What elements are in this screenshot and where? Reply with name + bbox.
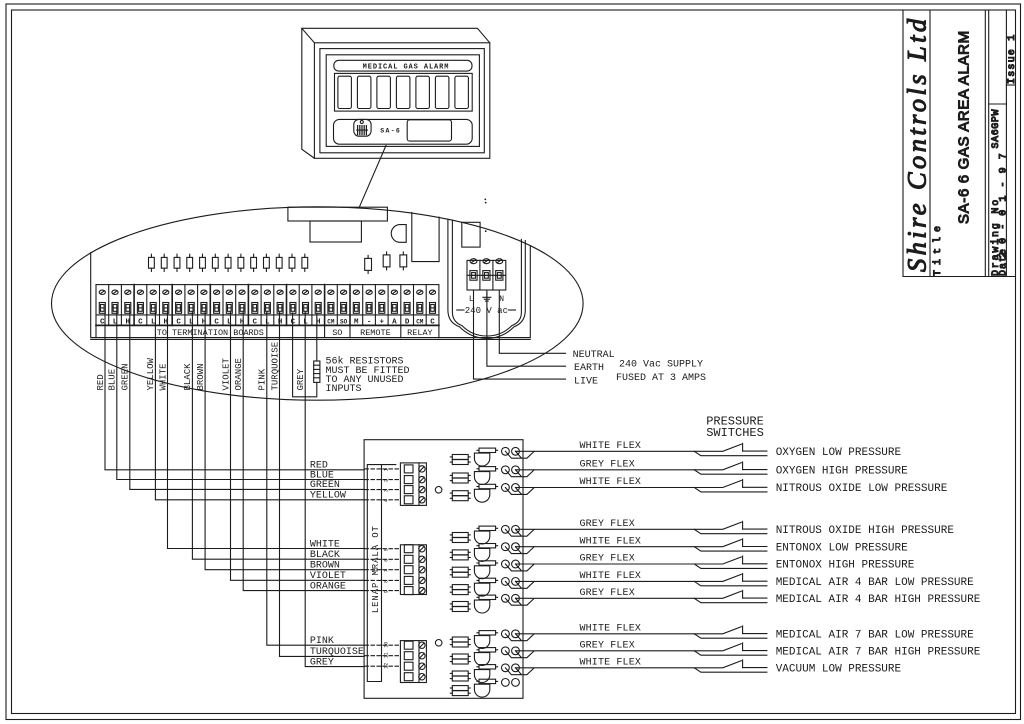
svg-text:8: 8 (384, 580, 390, 583)
connector J1 (400, 463, 426, 506)
svg-text:M: M (371, 570, 381, 575)
svg-text:3: 3 (384, 489, 390, 492)
mains terminal block (467, 259, 506, 290)
resistor pair row 9 (450, 637, 470, 647)
reset button (407, 120, 451, 141)
indicator row 6 (474, 561, 497, 579)
svg-text:ORANGE: ORANGE (310, 581, 346, 592)
terminal 13 (C) (252, 290, 258, 326)
indicator row 7 (474, 578, 497, 596)
svg-text:ENTONOX LOW PRESSURE: ENTONOX LOW PRESSURE (776, 542, 908, 554)
transformer block (462, 222, 480, 247)
svg-text:N: N (371, 595, 381, 600)
svg-text:NEUTRAL: NEUTRAL (573, 350, 615, 361)
indicator row 3 (474, 484, 497, 502)
terminal 18 (H) (315, 290, 321, 326)
svg-text:WHITE FLEX: WHITE FLEX (580, 571, 642, 582)
svg-text:A: A (371, 544, 381, 550)
svg-text:WHITE: WHITE (158, 363, 168, 390)
wire GREEN (130, 312, 364, 489)
svg-text:BLUE: BLUE (108, 369, 118, 391)
svg-text:N: N (499, 295, 504, 304)
terminal 19 (CM) (327, 290, 335, 325)
capacitor C1 (365, 255, 372, 273)
terminal 15 (H) (277, 290, 283, 326)
connector housing (top) (288, 207, 388, 221)
terminal 10 (C) (214, 290, 220, 326)
svg-text:9: 9 (384, 590, 390, 593)
svg-text:CM: CM (327, 318, 335, 325)
component block under connector (310, 221, 361, 242)
dashed wire 4 to J1 (365, 499, 400, 502)
svg-text:PINK: PINK (258, 368, 268, 390)
legend window MEDICAL GAS ALARM (334, 60, 472, 71)
terminal 17 (L) (302, 290, 308, 326)
indicator row 11 (474, 665, 497, 683)
indicator row 9 (474, 631, 497, 649)
svg-text:C: C (253, 318, 258, 326)
svg-text:5: 5 (384, 548, 390, 551)
svg-text:ORANGE: ORANGE (234, 358, 244, 390)
svg-text:BROWN: BROWN (310, 561, 340, 572)
pcb detail bubble (52, 207, 584, 400)
board terminals + flex pair row 6 (502, 556, 767, 571)
svg-text:SA-6: SA-6 (380, 128, 401, 135)
TO ALARM PANEL channel (367, 465, 396, 682)
connector J3 (400, 641, 426, 683)
svg-text:A: A (371, 588, 381, 594)
spare terminals (502, 679, 520, 687)
svg-text:GREY FLEX: GREY FLEX (580, 588, 635, 599)
svg-text:FUSED AT 3 AMPS: FUSED AT 3 AMPS (616, 373, 706, 384)
svg-text:11: 11 (384, 652, 390, 658)
svg-text:6: 6 (384, 559, 390, 562)
dashed wire 8 to J2 (365, 580, 400, 583)
svg-text:C: C (176, 318, 181, 326)
svg-text:RED: RED (96, 374, 106, 390)
terminal function band (96, 325, 439, 337)
svg-text:O: O (371, 532, 381, 537)
svg-text:REMOTE: REMOTE (360, 328, 391, 338)
indicator row 5 (474, 544, 497, 562)
live wire (474, 290, 566, 379)
svg-text:Shire Controls Ltd: Shire Controls Ltd (902, 15, 932, 272)
svg-text:MEDICAL AIR 4 BAR HIGH PRESSUR: MEDICAL AIR 4 BAR HIGH PRESSURE (776, 594, 981, 606)
resistor pair row 11 (450, 671, 470, 681)
resistor pair row 6 (450, 567, 470, 577)
56k resistor example (293, 313, 320, 397)
terminal 4 (C) (137, 290, 143, 326)
svg-text:BLACK: BLACK (183, 363, 193, 391)
terminal 23 (+) (379, 290, 385, 326)
svg-text:SWITCHES: SWITCHES (706, 426, 764, 440)
relay block (412, 212, 439, 261)
shire logo roundel (354, 119, 371, 136)
svg-text:Issue 1: Issue 1 (1007, 34, 1018, 84)
termination board outline (364, 440, 523, 699)
svg-text:C: C (138, 318, 143, 326)
capacitor C2 (383, 252, 390, 270)
wire BLACK (192, 312, 364, 559)
capacitor C3 (400, 252, 407, 270)
dashed wire 9 to J2 (365, 590, 400, 593)
board terminals + flex pair row 7 (502, 574, 767, 589)
svg-text:MEDICAL GAS ALARM: MEDICAL GAS ALARM (363, 64, 450, 72)
svg-text:SO: SO (340, 318, 348, 325)
svg-text:TURQUOISE: TURQUOISE (270, 342, 280, 391)
svg-text:M: M (354, 318, 359, 326)
resistor pair row 7 (450, 585, 470, 595)
svg-text:GREY FLEX: GREY FLEX (580, 554, 635, 565)
svg-text:GREY: GREY (310, 657, 334, 668)
label TO ALARM PANEL (371, 526, 381, 614)
svg-text:GREEN: GREEN (121, 363, 131, 390)
wire ORANGE (243, 312, 364, 591)
terminal 24 (A) (391, 290, 397, 326)
svg-text:R: R (371, 563, 381, 569)
terminal 1 (C) (99, 290, 105, 326)
dashed wire 11 to J3 (365, 652, 400, 658)
board terminals + flex pair row 10 (502, 643, 767, 658)
resistor pair row 3 (450, 491, 470, 501)
mains enclosure wall (448, 219, 525, 338)
svg-text:12: 12 (384, 663, 390, 669)
dashed wire 10 to J3 (365, 642, 400, 648)
svg-text:NITROUS OXIDE HIGH PRESSURE: NITROUS OXIDE HIGH PRESSURE (776, 525, 955, 537)
resistor pair row 10 (450, 654, 470, 664)
svg-text:TO TERMINATION BOARDS: TO TERMINATION BOARDS (157, 328, 264, 338)
svg-text:YELLOW: YELLOW (310, 491, 346, 502)
board terminals + flex pair row 1 (502, 443, 767, 458)
svg-text:RELAY: RELAY (407, 328, 433, 338)
svg-text:VIOLET: VIOLET (221, 357, 231, 390)
indicator row 2 (474, 467, 497, 485)
board terminals + flex pair row 9 (502, 626, 767, 641)
wire RED (105, 312, 364, 470)
board terminals + flex pair row 3 (502, 480, 767, 495)
svg-text:ENTONOX HIGH PRESSURE: ENTONOX HIGH PRESSURE (776, 560, 915, 572)
spare indicator (474, 679, 497, 697)
svg-text:INPUTS: INPUTS (326, 384, 362, 395)
resistor bank (13 input resistors) (149, 254, 308, 271)
svg-text:C: C (430, 318, 435, 326)
svg-text:A: A (392, 318, 397, 326)
spare resistor pair (450, 686, 470, 696)
svg-text:-: - (367, 318, 372, 326)
alarm panel fascia (326, 55, 479, 147)
svg-text:10: 10 (384, 642, 390, 648)
svg-text:SA-6 6 GAS AREA ALARM: SA-6 6 GAS AREA ALARM (956, 30, 973, 224)
terminal 3 (H) (125, 290, 131, 326)
terminal 16 (C) (290, 290, 296, 326)
svg-text:WHITE FLEX: WHITE FLEX (580, 441, 642, 452)
svg-text:L: L (227, 318, 232, 326)
terminal 7 (C) (176, 290, 182, 326)
mounting hole 1 (435, 487, 442, 494)
svg-text:YELLOW: YELLOW (146, 357, 156, 390)
heading PRESSURE SWITCHES (706, 415, 764, 441)
terminal 5 (L) (150, 290, 156, 326)
svg-text:GREY FLEX: GREY FLEX (580, 519, 635, 530)
svg-text:240 Vac SUPPLY: 240 Vac SUPPLY (619, 360, 703, 371)
earth symbol (483, 293, 491, 302)
terminal 9 (H) (201, 290, 207, 326)
wire PINK (267, 312, 364, 645)
svg-text:20-01-97: 20-01-97 (998, 145, 1009, 258)
svg-text:1: 1 (384, 468, 390, 471)
indicator row 4 (474, 526, 497, 544)
indicator row 10 (474, 648, 497, 666)
terminal 20 (SO) (340, 290, 348, 325)
board terminals + flex pair row 5 (502, 539, 767, 554)
svg-text:L: L (189, 318, 194, 326)
terminal 2 (L) (112, 290, 118, 326)
svg-text:PINK: PINK (310, 636, 334, 647)
terminal 14 (L) (264, 290, 270, 326)
svg-text:OXYGEN HIGH PRESSURE: OXYGEN HIGH PRESSURE (776, 466, 908, 478)
pcb outline (91, 246, 531, 338)
svg-text:WHITE FLEX: WHITE FLEX (580, 658, 642, 669)
terminal 22 (-) (366, 290, 372, 326)
wire WHITE (168, 312, 365, 549)
svg-text:H: H (278, 318, 283, 326)
resistor pair row 8 (450, 602, 470, 612)
board terminals + flex pair row 8 (502, 590, 767, 605)
terminal 11 (L) (226, 290, 232, 326)
dashed wire 5 to J2 (365, 548, 400, 551)
terminal strip TB1 (96, 285, 439, 326)
svg-text:GREY FLEX: GREY FLEX (580, 641, 635, 652)
alarm panel enclosure (3D view) (302, 28, 490, 158)
terminal 8 (L) (188, 290, 194, 326)
svg-text:L: L (265, 318, 270, 326)
svg-text:P: P (371, 583, 381, 588)
svg-text:GREY: GREY (296, 368, 306, 390)
svg-text:4: 4 (384, 499, 390, 502)
terminal 12 (H) (239, 290, 245, 326)
svg-text:SA6GPW: SA6GPW (991, 109, 1002, 149)
svg-text:C: C (214, 318, 219, 326)
svg-text:A: A (371, 557, 381, 563)
resistor pair row 1 (450, 455, 470, 465)
svg-text:CM: CM (416, 318, 424, 325)
wire YELLOW (155, 312, 364, 500)
dashed wire 7 to J2 (365, 569, 400, 572)
wire BLUE (117, 312, 364, 480)
svg-text:WHITE: WHITE (310, 539, 340, 550)
mounting hole 2 (435, 640, 442, 647)
svg-text:NITROUS OXIDE LOW PRESSURE: NITROUS OXIDE LOW PRESSURE (776, 483, 948, 495)
resistor pair row 2 (450, 473, 470, 483)
svg-text:E: E (371, 601, 381, 606)
transistor TO-220 outline (391, 225, 406, 243)
svg-text:BLACK: BLACK (310, 550, 340, 561)
neutral wire (499, 290, 565, 353)
terminal 27 (C) (429, 290, 435, 326)
svg-text:L: L (371, 608, 381, 613)
svg-text:T: T (371, 526, 381, 532)
svg-text:LIVE: LIVE (574, 377, 598, 388)
svg-text:Title: Title (932, 221, 944, 276)
connector J2 (400, 545, 426, 595)
svg-text:WHITE FLEX: WHITE FLEX (580, 624, 642, 635)
svg-text:+: + (380, 318, 385, 326)
svg-text:2: 2 (384, 479, 390, 482)
svg-text:VACUUM LOW PRESSURE: VACUUM LOW PRESSURE (776, 664, 902, 676)
indicator row 1 (474, 448, 497, 466)
dashed wire 12 to J3 (365, 663, 400, 669)
board terminals + flex pair row 4 (502, 521, 767, 536)
svg-text:L: L (371, 551, 381, 556)
earth wire (487, 290, 566, 366)
svg-text:MEDICAL AIR 4 BAR LOW PRESSURE: MEDICAL AIR 4 BAR LOW PRESSURE (776, 577, 974, 589)
dashed wire 6 to J2 (365, 559, 400, 562)
svg-text:BROWN: BROWN (196, 363, 206, 390)
svg-text:EARTH: EARTH (574, 363, 604, 374)
terminal 25 (D) (404, 290, 410, 326)
dashed wire 2 to J1 (365, 479, 400, 482)
leader line from panel to pcb detail (359, 146, 386, 208)
note 56k resistors (326, 356, 410, 396)
terminal 26 (CM) (416, 290, 424, 325)
svg-text:SO: SO (332, 328, 342, 338)
display window row (335, 73, 473, 111)
board terminals + flex pair row 2 (502, 462, 767, 477)
dashed wire 1 to J1 (365, 468, 400, 471)
wire BROWN (205, 312, 364, 570)
label 240 V ac (457, 306, 516, 316)
wire VIOLET (231, 312, 365, 580)
svg-text:C: C (100, 318, 105, 326)
svg-text:GREY FLEX: GREY FLEX (580, 460, 635, 471)
resistor pair row 4 (450, 533, 470, 543)
svg-text:MEDICAL AIR 7 BAR LOW PRESSURE: MEDICAL AIR 7 BAR LOW PRESSURE (776, 630, 974, 642)
svg-text:OXYGEN LOW PRESSURE: OXYGEN LOW PRESSURE (776, 447, 902, 459)
svg-text:D: D (405, 318, 410, 326)
terminal 21 (M) (353, 290, 359, 326)
indicator row 8 (474, 595, 497, 613)
reference dots (484, 199, 486, 233)
wire GREY (305, 312, 364, 667)
board terminals + flex pair row 11 (502, 660, 767, 675)
terminal 6 (H) (163, 290, 169, 326)
dashed wire 3 to J1 (365, 489, 400, 492)
svg-text:GREEN: GREEN (310, 480, 340, 491)
title block (903, 10, 1016, 277)
svg-text:MEDICAL AIR 7 BAR HIGH PRESSUR: MEDICAL AIR 7 BAR HIGH PRESSURE (776, 647, 981, 659)
svg-text:7: 7 (384, 569, 390, 572)
svg-text:WHITE FLEX: WHITE FLEX (580, 536, 642, 547)
resistor pair row 5 (450, 550, 470, 560)
wire TURQUOISE (280, 312, 365, 656)
svg-text:WHITE FLEX: WHITE FLEX (580, 477, 642, 488)
bottom fascia strip (334, 119, 473, 144)
